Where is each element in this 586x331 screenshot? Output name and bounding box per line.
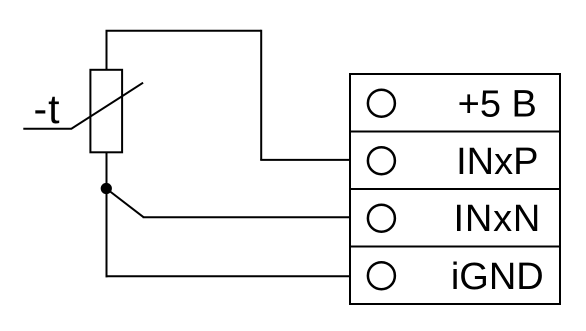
terminal block divider 3: [350, 246, 560, 248]
svg-text:+5 В: +5 В: [458, 83, 537, 125]
terminal block divider 1: [350, 131, 560, 133]
junction node (solder dot): [101, 183, 112, 194]
thermistor RK1 body: [90, 70, 122, 153]
wire: horizontal into INxP terminal: [260, 159, 350, 161]
terminal block outline: [350, 74, 560, 304]
wire: top horizontal run: [106, 30, 262, 32]
wire: thermistor bottom lead down to junction and iGND: [106, 152, 108, 277]
svg-text:INxN: INxN: [453, 198, 541, 240]
terminal circle pin +5V: [368, 90, 395, 117]
terminal block divider 2: [350, 188, 560, 190]
terminal circle pin INxN: [368, 205, 395, 232]
wire: thermistor top lead up: [106, 31, 108, 71]
thermistor strike line with tail: [23, 83, 143, 129]
wire: diagonal from junction toward INxN: [106, 189, 144, 218]
wire: right vertical drop to INxP: [260, 30, 262, 160]
svg-text:INxP: INxP: [456, 141, 538, 183]
svg-text:iGND: iGND: [451, 256, 544, 298]
wire: bottom horizontal into iGND terminal: [106, 275, 351, 277]
terminal circle pin INxP: [368, 147, 395, 174]
svg-text:-t: -t: [33, 86, 60, 132]
terminal circle pin iGND: [368, 262, 395, 289]
wire: horizontal into INxN terminal: [143, 216, 350, 218]
